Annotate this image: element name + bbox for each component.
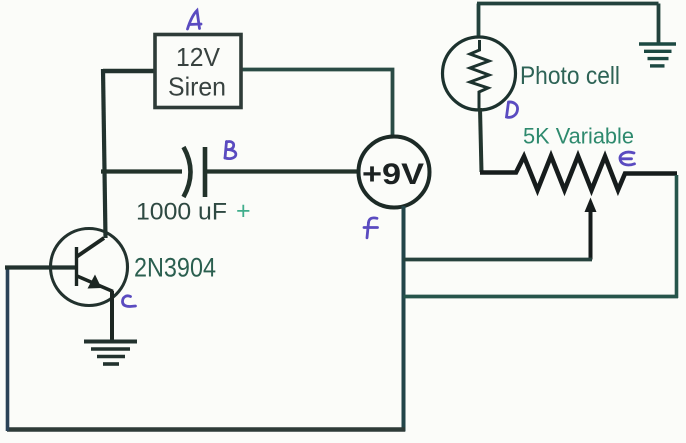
svg-text:1000 uF: 1000 uF: [136, 199, 227, 226]
svg-text:+9V: +9V: [362, 158, 424, 191]
svg-text:12V: 12V: [176, 42, 221, 72]
svg-text:Siren: Siren: [168, 72, 226, 102]
svg-text:Photo cell: Photo cell: [520, 62, 620, 90]
svg-text:2N3904: 2N3904: [134, 253, 216, 283]
svg-text:+: +: [236, 197, 251, 225]
svg-text:5K Variable: 5K Variable: [523, 124, 634, 149]
